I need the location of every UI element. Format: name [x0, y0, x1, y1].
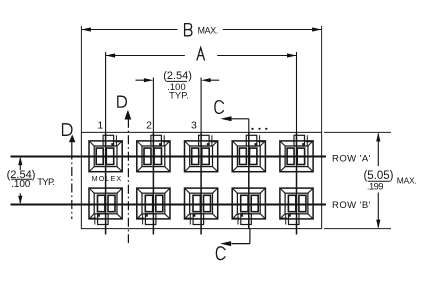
svg-text:ROW 'B': ROW 'B'	[332, 200, 371, 211]
svg-text:1: 1	[97, 120, 103, 132]
svg-text:MAX.: MAX.	[198, 25, 219, 35]
svg-text:TYP.: TYP.	[169, 90, 189, 100]
svg-text:.100: .100	[11, 179, 30, 190]
svg-text:3: 3	[191, 120, 197, 132]
svg-text:MOLEX: MOLEX	[92, 174, 122, 183]
svg-text:2: 2	[146, 120, 152, 132]
svg-text:(2.54): (2.54)	[163, 70, 192, 82]
svg-text:MAX.: MAX.	[397, 175, 417, 185]
svg-text:TYP.: TYP.	[37, 176, 55, 187]
svg-text:.199: .199	[367, 180, 384, 191]
svg-text:ROW 'A': ROW 'A'	[332, 153, 371, 164]
